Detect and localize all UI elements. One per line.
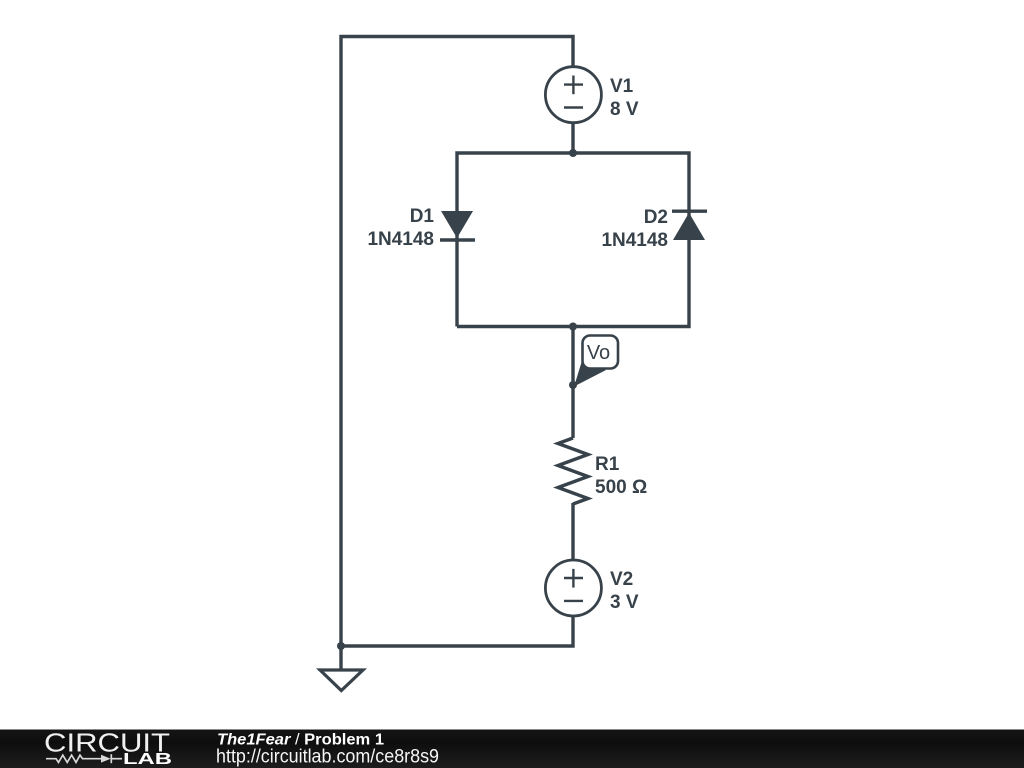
node flag Vo <box>574 336 618 387</box>
CircuitLab logo resistor-diode glyph <box>46 754 122 763</box>
wire resistor bottom lead to V2 <box>571 503 574 559</box>
svg-text:V1: V1 <box>610 76 634 97</box>
wire output branch from bottom rail to resistor <box>571 327 574 439</box>
svg-text:D2: D2 <box>644 207 668 228</box>
diode D1 <box>440 211 475 240</box>
svg-text:http://circuitlab.com/ce8r8s9: http://circuitlab.com/ce8r8s9 <box>216 747 439 768</box>
wire V2 bottom lead and bottom rail to ground node <box>341 617 573 646</box>
voltage source V2 <box>545 560 601 616</box>
label V1 8 V <box>610 76 639 120</box>
wire top rail from left corner to V1 top node <box>341 37 573 647</box>
node Vo junction dot <box>569 381 577 389</box>
svg-text:1N4148: 1N4148 <box>367 229 434 250</box>
svg-text:500 Ω: 500 Ω <box>595 477 647 498</box>
label V2 3 V <box>610 569 639 613</box>
node junction at bridge output <box>569 323 577 331</box>
node junction at V1 output <box>569 149 577 157</box>
svg-text:3 V: 3 V <box>610 592 639 613</box>
svg-text:R1: R1 <box>595 454 620 475</box>
resistor R1 <box>558 438 588 504</box>
node junction at ground corner <box>337 642 345 650</box>
diode D2 <box>672 211 707 240</box>
label D2 1N4148 <box>601 207 668 251</box>
svg-text:1N4148: 1N4148 <box>601 230 668 251</box>
svg-text:8 V: 8 V <box>610 99 639 120</box>
voltage source V1 <box>545 67 601 123</box>
svg-text:LAB: LAB <box>123 751 172 768</box>
wire V1 bottom lead <box>571 124 574 153</box>
svg-text:V2: V2 <box>610 569 633 590</box>
ground <box>320 646 363 691</box>
footer bar <box>0 730 1024 768</box>
label R1 500 ohm <box>595 454 647 498</box>
svg-text:Vo: Vo <box>587 342 610 364</box>
svg-text:D1: D1 <box>410 206 435 227</box>
label D1 1N4148 <box>367 206 434 250</box>
wire diode bridge top rail <box>457 153 689 327</box>
